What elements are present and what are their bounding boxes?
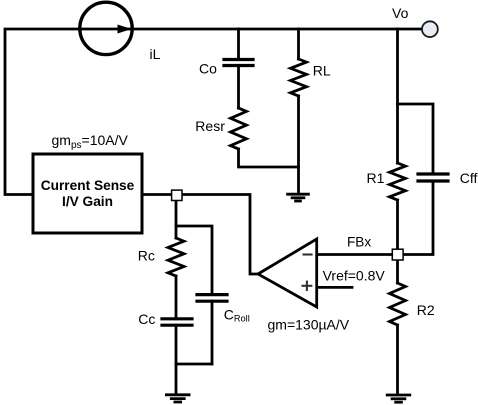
- svg-text:Cff: Cff: [460, 170, 478, 186]
- svg-text:R2: R2: [417, 302, 435, 318]
- svg-text:Rc: Rc: [138, 247, 155, 263]
- svg-text:RL: RL: [313, 63, 331, 79]
- svg-text:I/V Gain: I/V Gain: [62, 194, 113, 209]
- svg-text:R1: R1: [367, 170, 385, 186]
- svg-text:Vo: Vo: [392, 5, 409, 21]
- svg-text:Vref=0.8V: Vref=0.8V: [323, 268, 386, 284]
- svg-text:iL: iL: [150, 46, 161, 62]
- svg-text:Resr: Resr: [195, 118, 225, 134]
- svg-text:Cc: Cc: [138, 311, 155, 327]
- svg-text:Co: Co: [199, 61, 217, 77]
- svg-text:Current Sense: Current Sense: [41, 178, 135, 193]
- svg-text:gm=130µA/V: gm=130µA/V: [268, 317, 350, 333]
- svg-text:FBx: FBx: [347, 234, 371, 249]
